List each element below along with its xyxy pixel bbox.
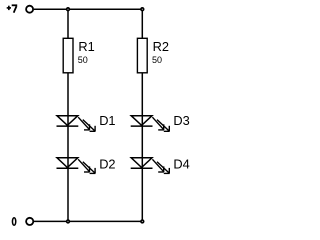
svg-text:D2: D2 (99, 157, 115, 172)
wire branch 1 vertical (67, 9, 69, 221)
junction bottom branch 1 (67, 220, 70, 223)
LED D1 (57, 116, 96, 132)
LED D3 (131, 116, 170, 132)
svg-text:50: 50 (152, 55, 162, 65)
wire bottom rail (34, 220, 142, 222)
junction top branch 1 (67, 8, 70, 11)
resistor R2 (137, 38, 147, 73)
terminal +7 (26, 6, 33, 13)
wire top rail (34, 8, 143, 10)
junction top branch 2 corner (141, 8, 144, 11)
terminal 0 (26, 218, 33, 225)
svg-text:D4: D4 (173, 157, 189, 172)
svg-text:R2: R2 (153, 39, 169, 54)
node +7 label (7, 5, 18, 12)
LED D2 (57, 158, 96, 174)
LED D4 (131, 158, 170, 174)
node 0 label (12, 218, 15, 226)
resistor R1 (63, 38, 73, 73)
svg-text:D1: D1 (99, 113, 115, 128)
svg-text:50: 50 (78, 55, 88, 65)
junction bottom branch 2 corner (141, 220, 144, 223)
svg-text:R1: R1 (78, 39, 94, 54)
svg-text:D3: D3 (173, 113, 189, 128)
wire branch 2 vertical (141, 9, 143, 221)
